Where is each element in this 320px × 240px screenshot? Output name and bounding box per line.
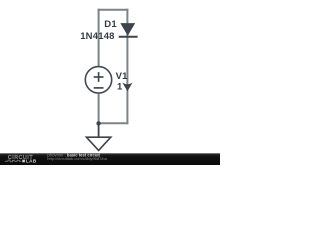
current arrow on right wire — [122, 83, 132, 92]
wire left vertical — [98, 9, 100, 67]
svg-text:1N4148: 1N4148 — [80, 31, 114, 42]
svg-text:V1: V1 — [116, 71, 129, 82]
ground symbol — [86, 137, 110, 150]
voltage source V1 — [85, 67, 111, 93]
wire right vertical — [126, 9, 128, 125]
svg-text:D1: D1 — [104, 19, 117, 30]
svg-text:1: 1 — [117, 82, 123, 93]
svg-text:LAB: LAB — [26, 158, 37, 164]
ground lead wire — [98, 123, 100, 137]
wire top horizontal — [98, 9, 129, 11]
node junction dot — [96, 121, 100, 125]
diode D1 — [119, 23, 138, 37]
watermark bar — [0, 153, 220, 165]
svg-text:http://circuitlab.com/c/8dy968: http://circuitlab.com/c/8dy9687/ba — [47, 156, 107, 161]
wire left lower vertical — [98, 93, 100, 125]
wire bottom horizontal — [98, 122, 129, 124]
watermark logo waveform — [5, 160, 22, 162]
watermark logo LAB — [22, 160, 25, 163]
